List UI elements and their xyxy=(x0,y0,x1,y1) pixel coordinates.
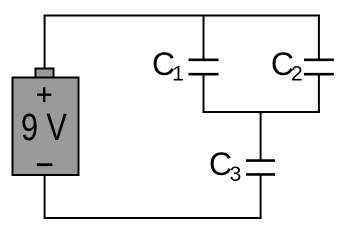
battery body (9 V source) xyxy=(13,78,79,176)
battery plus symbol xyxy=(37,87,51,102)
wire: C2 bottom stub xyxy=(318,75,320,114)
capacitor C1 top plate xyxy=(189,58,219,61)
wire: C1 bottom stub xyxy=(203,75,205,114)
battery minus symbol xyxy=(37,163,53,166)
wire: C1 top stub xyxy=(203,16,205,60)
wire: C2 top stub xyxy=(318,15,320,60)
wire: middle rail joining C1 and C2 bottoms xyxy=(203,111,320,113)
svg-text:9 V: 9 V xyxy=(21,107,68,149)
capacitor C3 top plate xyxy=(246,159,275,162)
wire: battery positive terminal to top rail xyxy=(44,15,46,69)
wire: C3 bottom stub xyxy=(260,175,262,219)
wire: bottom rail xyxy=(44,217,262,219)
svg-text:3: 3 xyxy=(230,163,242,186)
svg-text:1: 1 xyxy=(172,63,184,86)
label C3 xyxy=(209,146,241,186)
wire: top rail xyxy=(44,15,320,17)
wire: battery negative terminal to bottom rail xyxy=(44,175,46,219)
label C2 xyxy=(271,46,303,86)
capacitor C2 top plate xyxy=(304,58,334,61)
capacitor C1 bottom plate xyxy=(189,73,219,76)
battery positive terminal nub xyxy=(36,69,54,81)
label C1 xyxy=(152,46,184,86)
capacitor C2 bottom plate xyxy=(304,73,334,76)
wire: C3 top stub xyxy=(260,111,262,160)
capacitor C3 bottom plate xyxy=(246,173,275,176)
svg-text:2: 2 xyxy=(291,63,303,86)
